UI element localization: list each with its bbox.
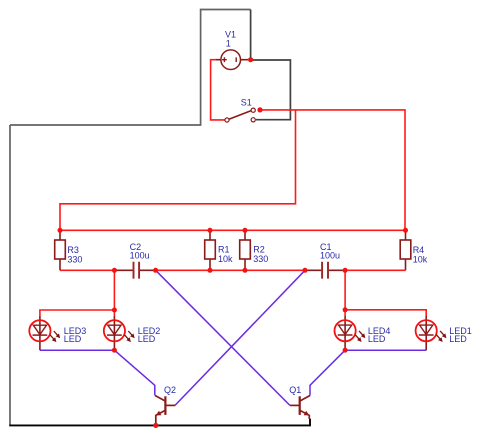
svg-text:100u: 100u [130, 250, 150, 260]
svg-text:LED: LED [449, 334, 467, 344]
svg-text:330: 330 [67, 255, 82, 265]
svg-text:Q1: Q1 [289, 385, 301, 395]
svg-text:100u: 100u [320, 250, 340, 260]
svg-text:1: 1 [226, 38, 231, 48]
svg-text:10k: 10k [218, 254, 233, 264]
svg-text:330: 330 [253, 254, 268, 264]
svg-text:LED: LED [368, 334, 386, 344]
svg-text:LED: LED [64, 334, 82, 344]
svg-text:10k: 10k [413, 254, 428, 264]
svg-text:R4: R4 [413, 245, 425, 255]
svg-text:LED: LED [138, 334, 156, 344]
svg-text:Q2: Q2 [164, 385, 176, 395]
svg-text:S1: S1 [241, 98, 252, 108]
